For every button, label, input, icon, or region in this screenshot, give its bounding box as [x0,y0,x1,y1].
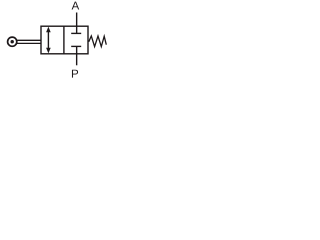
arrowhead up [46,27,51,33]
wire: port A line [76,13,78,27]
roller pin dot [11,40,14,43]
roller circle [8,37,17,46]
port label A [72,2,80,10]
blocked port (top, right box) [76,26,78,33]
position divider line [63,26,65,54]
wire: port P line [76,54,78,66]
port label P [72,70,78,78]
arrowhead down [46,48,51,54]
roller lever lines [17,39,41,41]
return spring [89,36,107,47]
flow path arrow shaft (left box) [47,30,49,51]
blocked port (bottom, right box) [76,46,78,53]
valve body (two position boxes) [41,26,88,54]
